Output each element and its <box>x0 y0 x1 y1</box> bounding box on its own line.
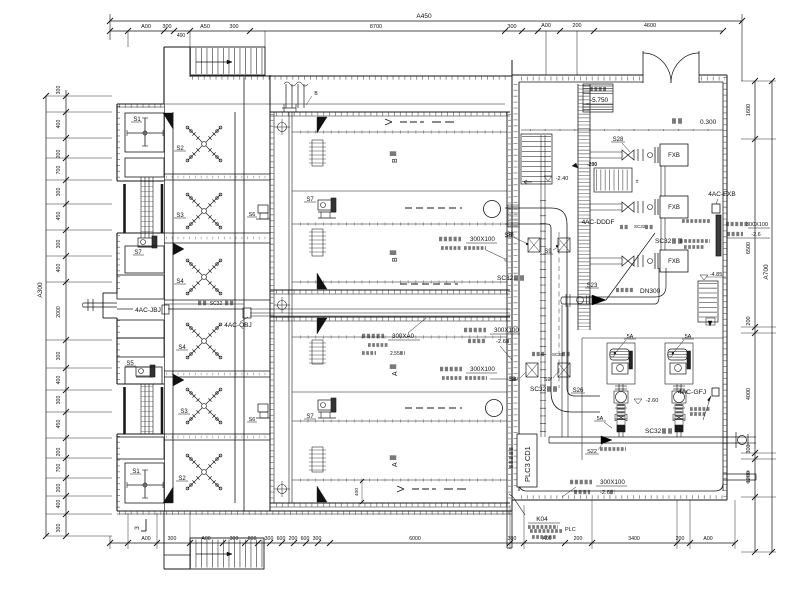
wall box FXB <box>712 204 720 213</box>
tank A label <box>392 371 399 376</box>
dimension right segment line <box>754 81 756 552</box>
svg-text:±: ± <box>636 179 639 185</box>
svg-text:-2.60: -2.60 <box>646 398 659 404</box>
label cable tray bottom right <box>570 480 592 484</box>
svg-text:200: 200 <box>56 484 62 493</box>
pipe DN300 vertical <box>658 268 660 296</box>
svg-text:600: 600 <box>277 536 286 542</box>
svg-text:A450: A450 <box>416 13 432 20</box>
svg-text:300: 300 <box>162 24 171 30</box>
label cable tray A right -2.6 <box>464 328 486 332</box>
svg-text:4AC-FXB: 4AC-FXB <box>708 191 735 198</box>
label SC32 small <box>620 225 629 229</box>
air duct horizontal upper <box>505 207 551 209</box>
mixer S4 <box>186 259 222 295</box>
svg-text:200: 200 <box>56 448 62 457</box>
svg-text:4AC-GFJ: 4AC-GFJ <box>678 389 706 396</box>
svg-text:S9/: S9/ <box>544 377 553 383</box>
basin column walls <box>164 104 166 511</box>
svg-text:A50: A50 <box>200 24 210 30</box>
lift pit hatched <box>583 84 613 112</box>
svg-text:SC32: SC32 <box>497 275 514 282</box>
tank A label 2 <box>392 462 399 467</box>
pump unit 1 <box>607 343 635 384</box>
stair A machine room <box>521 134 552 184</box>
svg-text:200: 200 <box>574 536 583 542</box>
machine room left wall <box>518 82 520 491</box>
survey point bottom <box>278 485 287 494</box>
stair C machine room <box>698 281 718 322</box>
svg-text:4AC-JBJ: 4AC-JBJ <box>135 307 161 314</box>
tank right wall <box>506 112 508 503</box>
dimension right extension lines <box>741 80 776 82</box>
label SC32 lower-left duct <box>532 352 544 356</box>
dimension bottom line <box>110 542 735 544</box>
tank B lane lines <box>292 131 507 133</box>
damper S8 lower <box>526 363 538 377</box>
svg-text:S8: S8 <box>504 233 512 239</box>
svg-text:400: 400 <box>56 264 62 273</box>
bottom step walls <box>506 503 508 548</box>
svg-text:PLC3 CD1: PLC3 CD1 <box>523 446 532 482</box>
svg-text:K04: K04 <box>536 516 548 523</box>
dimension top segment line <box>110 30 723 32</box>
svg-text:700: 700 <box>56 166 62 175</box>
label cable tray right upper <box>726 222 748 226</box>
wall left outline lower <box>116 318 118 384</box>
basin dividers row2-3 <box>164 232 270 234</box>
mixer S2 <box>186 126 222 162</box>
svg-text:SC32: SC32 <box>634 224 646 229</box>
svg-text:4600: 4600 <box>644 23 656 29</box>
blowoff pipe horizontal <box>549 436 740 438</box>
svg-text:450: 450 <box>56 420 62 429</box>
svg-text:300X100: 300X100 <box>470 236 495 243</box>
svg-text:300: 300 <box>313 536 322 542</box>
fan unit FXB row1 <box>590 151 622 153</box>
survey point mid <box>278 301 287 310</box>
svg-text:FXB: FXB <box>668 205 680 211</box>
diffuser rack B2 <box>312 229 323 256</box>
svg-text:0.300: 0.300 <box>700 119 717 126</box>
label -200 arrow <box>572 163 578 168</box>
mixer S3 <box>186 193 222 229</box>
survey point top <box>278 123 287 132</box>
label cable tray A mid <box>440 367 462 371</box>
room S1 top <box>125 113 164 152</box>
pipe bundle top <box>140 177 142 238</box>
label cable tray B right <box>439 237 461 241</box>
pipe DN300 horizontal <box>562 296 655 298</box>
svg-text:300: 300 <box>229 24 238 30</box>
wall left outline upper <box>116 104 118 181</box>
svg-text:400: 400 <box>56 120 62 129</box>
tiny text fan grounding <box>690 407 710 411</box>
inlet pipe <box>83 302 117 304</box>
machine room top wall left segment <box>512 74 643 76</box>
machine room right wall <box>726 75 728 500</box>
hatch near arrow <box>586 296 592 305</box>
pipe bundle bottom <box>140 384 142 434</box>
wall box GFJ <box>712 388 719 396</box>
fan header vertical pipes <box>660 166 662 196</box>
wall fill triangles basin corners <box>163 113 173 129</box>
svg-text:1600: 1600 <box>746 104 752 116</box>
stair top-exterior <box>190 47 265 75</box>
svg-text:300X100: 300X100 <box>494 327 519 334</box>
platform line <box>521 129 723 131</box>
room S7 block a <box>125 246 164 273</box>
dimension left overall line A300 <box>45 96 47 536</box>
svg-text:B: B <box>392 257 399 262</box>
label -2.60 <box>634 399 642 404</box>
svg-text:-2.6: -2.6 <box>600 490 610 496</box>
svg-text:A700: A700 <box>763 264 770 280</box>
PLC3 CD1 box <box>517 434 537 487</box>
mixer S3 <box>186 388 222 424</box>
label cable tray A 300XA0 <box>362 334 384 338</box>
tank dashes B bottom <box>400 283 458 285</box>
corridor junction box left <box>162 305 169 314</box>
dimension top overall line A450 <box>110 20 742 22</box>
pump unit 2 <box>665 343 693 384</box>
svg-text:300X100: 300X100 <box>470 366 495 373</box>
svg-text:4AC-QBJ: 4AC-QBJ <box>224 322 251 329</box>
svg-text:700: 700 <box>56 464 62 473</box>
svg-text:A300: A300 <box>37 282 44 298</box>
svg-text:300X100: 300X100 <box>600 479 625 486</box>
pump area boundary <box>582 337 723 339</box>
svg-text:-2.6: -2.6 <box>496 339 506 345</box>
svg-text:SC32: SC32 <box>530 386 547 393</box>
fan unit FXB row2 <box>590 203 622 205</box>
mixer S2 <box>186 454 222 490</box>
wall top corridor <box>190 75 512 77</box>
svg-text:A00: A00 <box>201 536 210 542</box>
svg-text:-200: -200 <box>587 162 597 168</box>
svg-text:3400: 3400 <box>628 536 640 542</box>
stair B machine room <box>594 168 632 192</box>
dimension right overall line A700 <box>771 81 773 552</box>
svg-text:FXB: FXB <box>668 153 680 159</box>
svg-text:4000: 4000 <box>746 388 752 400</box>
wall cable tray right <box>716 215 721 256</box>
central corridor cable lines <box>117 308 133 310</box>
svg-text:300: 300 <box>507 24 516 30</box>
svg-text:A00: A00 <box>541 23 551 29</box>
svg-text:300: 300 <box>56 240 62 249</box>
svg-text:-2.6: -2.6 <box>751 232 760 238</box>
riser ladder strip <box>577 84 579 330</box>
svg-text:300X100: 300X100 <box>746 222 768 228</box>
pipe DN300 elbow <box>655 286 666 297</box>
elevation -4.85 <box>700 275 708 280</box>
svg-text:200: 200 <box>572 23 581 29</box>
svg-text:-5.750: -5.750 <box>590 97 609 104</box>
diffuser rack A2 <box>312 447 323 472</box>
svg-text:4AC-DDDF: 4AC-DDDF <box>582 219 615 226</box>
S23 arrow <box>592 295 606 305</box>
room S1 bottom <box>125 463 164 503</box>
svg-text:800: 800 <box>248 536 257 542</box>
svg-text:200: 200 <box>746 316 752 325</box>
room bottom block a <box>117 437 164 459</box>
machine room bottom wall <box>519 483 723 491</box>
stair bottom landing <box>163 511 165 569</box>
svg-text:300: 300 <box>746 444 752 453</box>
tiny text under pipe <box>600 447 626 451</box>
svg-text:A00: A00 <box>703 536 712 542</box>
diffuser rack B1 <box>312 140 323 166</box>
stair bottom-exterior <box>190 538 264 569</box>
basin mid-corridor walls <box>164 299 270 301</box>
svg-text:1200: 1200 <box>746 471 752 483</box>
inlet structure left <box>103 292 117 294</box>
svg-text:A: A <box>392 371 399 376</box>
svg-text:300: 300 <box>168 536 177 542</box>
channel walls lower <box>123 387 126 434</box>
section mark 3 <box>145 519 147 531</box>
wall top corridor inner line <box>165 103 505 105</box>
duct crossing wall upper <box>508 205 519 227</box>
label DN300 <box>616 288 634 292</box>
svg-text:SC32: SC32 <box>210 301 223 307</box>
duct down to pump area <box>561 305 563 437</box>
svg-text:400: 400 <box>354 488 360 496</box>
tank dashes B mid <box>405 207 462 209</box>
label SC32 corridor <box>198 301 208 306</box>
wall top-left block <box>117 103 164 105</box>
label -5.750 <box>590 87 606 91</box>
svg-text:300: 300 <box>56 524 62 533</box>
mixer paddle S1 bottom <box>127 484 163 486</box>
door jambs and arcs <box>642 51 644 83</box>
svg-text:2.55: 2.55 <box>390 351 400 357</box>
room upper-mid b <box>117 338 164 357</box>
svg-text:300XA0: 300XA0 <box>392 333 415 340</box>
svg-text:A: A <box>392 462 399 467</box>
damper S8 upper <box>528 238 540 252</box>
dimension bottom extension lines <box>109 536 111 549</box>
vertical tiny text cable <box>509 446 513 468</box>
svg-text:FXB: FXB <box>668 259 680 265</box>
svg-text:300: 300 <box>56 188 62 197</box>
air duct elbow upper <box>551 208 567 224</box>
svg-text:600: 600 <box>301 536 310 542</box>
mixer S4 <box>186 323 222 359</box>
basin dividers row4-5 <box>164 370 270 372</box>
svg-text:300: 300 <box>56 396 62 405</box>
stair top landing <box>164 46 190 48</box>
pipe DN300 cap <box>561 297 562 304</box>
svg-text:200: 200 <box>56 150 62 159</box>
air duct vertical <box>550 228 552 392</box>
blowoff pipe flange right <box>735 432 737 448</box>
elevation -2.40 <box>544 176 552 181</box>
label platform 0.300 <box>672 118 683 124</box>
svg-text:8700: 8700 <box>370 24 382 30</box>
right wall pipe stub <box>723 473 756 475</box>
damper S9 lower <box>558 363 570 377</box>
svg-text:300: 300 <box>265 536 274 542</box>
tank A block outer walls <box>270 316 510 318</box>
tiny grounding text 2 <box>680 239 710 243</box>
pump S7 wall-unit <box>138 238 154 247</box>
svg-text:S8: S8 <box>508 377 516 383</box>
channel walls upper <box>123 184 126 233</box>
tank flow arrows A bottom <box>397 486 404 489</box>
svg-text:SC32: SC32 <box>645 428 662 435</box>
svg-text:2000: 2000 <box>56 306 62 318</box>
tank inner corridor verticals <box>288 112 290 503</box>
corridor junction box mid <box>243 308 251 318</box>
svg-text:400: 400 <box>56 376 62 385</box>
cable riser pair <box>540 135 542 437</box>
room below S1 top <box>125 158 164 177</box>
svg-text:300: 300 <box>56 86 62 95</box>
svg-text:SC32: SC32 <box>655 238 672 245</box>
S22 arrow on pipe <box>601 436 612 444</box>
air duct elbow lower <box>551 392 571 412</box>
room S7 block b <box>117 275 164 299</box>
tank A lane lines <box>292 336 507 338</box>
damper S9 upper <box>558 238 570 252</box>
wall bottom left-block <box>117 510 512 512</box>
svg-text:400: 400 <box>56 500 62 509</box>
dimension left extension lines <box>46 95 112 97</box>
fan unit FXB row3 <box>590 257 622 259</box>
machine room top wall right segment <box>699 74 727 76</box>
tank B label 2 <box>392 257 399 262</box>
svg-text:6500: 6500 <box>746 242 752 254</box>
basin dividers row5-6 <box>164 433 270 435</box>
air duct horizontal lower <box>571 411 600 413</box>
tank flow arrows B top <box>385 119 392 122</box>
basin dividers row1-2 <box>164 173 270 175</box>
svg-text:400: 400 <box>177 33 186 39</box>
tank B block outer walls <box>269 75 271 511</box>
tiny grounding text 1 <box>682 219 710 223</box>
mixer paddle S1 top <box>127 132 163 134</box>
dimension top extension lines <box>127 31 129 47</box>
vent pipe top corridor <box>285 84 287 108</box>
svg-text:A00: A00 <box>141 536 150 542</box>
room upper-mid a <box>117 320 164 338</box>
diffuser rack A1 <box>312 340 323 364</box>
label K04 callout <box>513 497 525 515</box>
valve bowties on drops <box>615 414 627 421</box>
svg-text:6000: 6000 <box>409 536 421 542</box>
tank B label <box>392 158 399 163</box>
svg-text:300: 300 <box>56 352 62 361</box>
dimension left segment line <box>65 90 67 536</box>
svg-text:-2.40: -2.40 <box>556 176 569 182</box>
pump drops to pipe <box>618 428 620 437</box>
svg-text:B: B <box>392 158 399 163</box>
svg-text:450: 450 <box>56 212 62 221</box>
svg-text:3: 3 <box>134 526 141 530</box>
tank dashes A mid <box>405 407 462 409</box>
svg-text:200: 200 <box>289 536 298 542</box>
tank circle A <box>486 400 503 417</box>
svg-text:SC32: SC32 <box>552 352 564 357</box>
svg-text:DN300: DN300 <box>640 288 661 295</box>
tank circle B <box>484 201 501 218</box>
svg-text:PLC: PLC <box>565 527 576 533</box>
room S5 <box>125 367 162 384</box>
svg-text:A00: A00 <box>141 24 151 30</box>
